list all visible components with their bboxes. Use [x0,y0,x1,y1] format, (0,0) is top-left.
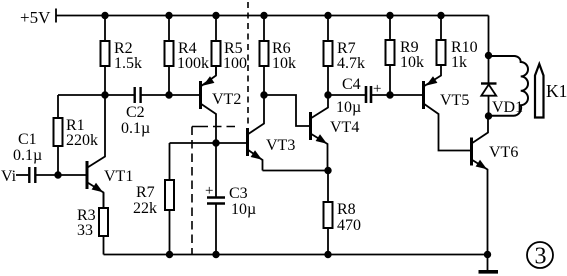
wire Vi lead [16,174,28,176]
node A wire R2 bottom / R1 top / C2 left [58,94,135,96]
transistor VT2 [201,66,242,143]
svg-text:VT4: VT4 [330,119,359,136]
svg-text:VT5: VT5 [440,92,469,109]
transistor VT5 [424,64,472,151]
svg-text:+5V: +5V [20,8,51,27]
junction R7 bottom rail [167,252,173,258]
svg-text:VT6: VT6 [489,144,518,161]
resistor R6 10k [260,16,297,96]
capacitor C3 10u electrolytic [205,143,256,255]
junction C3 bottom rail [213,252,219,258]
svg-text:33: 33 [77,222,93,239]
junction VT4 emitter / VT3 emitter / R8 [325,168,331,174]
resistor R7 22k [133,143,174,255]
svg-text:22k: 22k [133,200,157,217]
dashed boundary line [247,2,249,124]
wire bottom ground rail [104,254,489,256]
resistor R3 33 [77,193,108,255]
wire VT3 emitter to R8 top [263,170,329,172]
wire VT4 collector node to C4 [328,94,365,96]
svg-text:3: 3 [535,244,547,270]
junction rail-R10 [438,13,444,19]
junction R8 bottom rail [325,252,331,258]
resistor R1 220k [54,95,99,175]
capacitor C2 0.1u [121,87,150,137]
svg-text:+: + [205,183,213,199]
junction rail-R7 [325,13,331,19]
svg-text:10k: 10k [400,54,424,71]
resistor R8 470 [324,171,362,255]
junction relay top node [486,53,492,59]
svg-text:R7: R7 [136,184,155,201]
capacitor C4 10u electrolytic [336,76,381,116]
junction rail-R4 [166,13,172,19]
junction rail-R5 [213,13,219,19]
junction C2/R4/VT2 base [166,92,172,98]
junction rail-R2 [102,13,108,19]
svg-text:C3: C3 [229,185,248,202]
transistor VT6 [472,116,519,255]
wire C1 to VT1 base [36,174,86,176]
svg-text:100: 100 [223,55,247,72]
relay armature K1 [535,64,567,118]
junction R6 bottom / VT3 collector [261,92,267,98]
svg-text:10k: 10k [272,55,296,72]
junction relay bottom node [486,113,492,119]
junction VT6 emitter bottom rail [485,252,491,258]
svg-text:VT2: VT2 [212,91,241,108]
+5V terminal tick [55,9,57,23]
svg-text:1k: 1k [451,54,467,71]
node +5V label [20,8,51,27]
svg-text:K1: K1 [546,81,567,101]
junction rail-R6 [261,13,267,19]
svg-text:VT3: VT3 [266,137,295,154]
wire rail right drop to relay node [488,16,490,56]
svg-text:470: 470 [337,217,361,234]
node Vi input label [1,168,17,185]
resistor R5 100 [212,16,248,75]
svg-text:10µ: 10µ [336,99,361,116]
junction rail-R9 [387,13,393,19]
svg-text:VT1: VT1 [104,168,133,185]
junction R9 bottom [387,92,393,98]
wire C2 right to VT2 base [141,94,200,96]
resistor R9 10k [386,16,425,96]
resistor R4 100k [165,16,210,96]
junction VT4 collector / R7 / C4 [325,92,331,98]
figure number 3 in circle [527,242,553,270]
resistor R2 1.5k [101,16,143,96]
junction VT2 collector / C3 / VT3 base [213,140,219,146]
svg-text:1.5k: 1.5k [114,55,142,72]
junction node A [102,92,108,98]
svg-text:4.7k: 4.7k [337,55,365,72]
wire top +5V rail [56,15,489,17]
wire C4 right to VT5 base [371,94,422,96]
junction R1 bottom / VT1 base [55,172,61,178]
ground [479,255,499,272]
resistor R7 4.7k [324,16,366,96]
svg-text:0.1µ: 0.1µ [121,120,150,137]
diode VD1 [481,56,523,117]
svg-text:C1: C1 [18,131,37,148]
svg-text:10µ: 10µ [231,201,256,218]
svg-text:C2: C2 [126,104,145,121]
wire VT2 collector node to VT3 base [170,142,248,144]
capacitor C1 0.1u [13,131,42,183]
relay coil K1 [489,56,529,116]
svg-text:C4: C4 [342,76,361,93]
svg-text:220k: 220k [66,132,98,149]
svg-text:100k: 100k [177,55,209,72]
svg-text:0.1µ: 0.1µ [13,147,42,164]
svg-text:Vi: Vi [1,168,17,185]
svg-text:R8: R8 [337,201,356,218]
transistor VT1 [87,95,133,208]
wire R6 node to VT4 base [264,95,310,126]
transistor VT4 [311,95,360,171]
transistor VT3 [248,95,296,171]
resistor R10 1k [437,16,478,72]
